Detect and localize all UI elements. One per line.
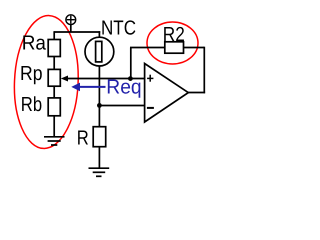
red highlight ellipse around Ra/Rp/Rb divider	[12, 14, 81, 150]
red highlight ellipse around R2	[147, 22, 198, 64]
wire top rail	[54, 31, 100, 33]
wire R2 to output node	[184, 47, 205, 49]
wire Rb to ground	[53, 116, 55, 137]
wire Ra to Rp	[53, 57, 55, 70]
resistor R2	[165, 42, 184, 53]
wire feedback right vertical	[203, 47, 205, 94]
potentiometer Rp	[48, 69, 60, 86]
supply terminal circle-plus	[66, 15, 76, 25]
wire wiper to op-amp non-inverting input	[66, 78, 145, 80]
svg-text:Req: Req	[106, 77, 141, 99]
ground under Rb	[44, 137, 65, 145]
op-amp U1 triangle	[145, 64, 189, 123]
svg-text:Rp: Rp	[20, 63, 43, 85]
op-amp minus input symbol	[147, 107, 154, 109]
blue arrow Req pointing to divider	[71, 83, 105, 92]
wire feedback horizontal to R2	[130, 47, 165, 49]
wire rail to Ra	[53, 31, 55, 39]
svg-text:Rb: Rb	[21, 94, 42, 116]
resistor Ra	[48, 40, 60, 57]
wire op-amp output	[188, 92, 205, 94]
wire NTC to R	[98, 66, 100, 127]
wire rail to NTC	[98, 31, 100, 37]
thermistor NTC	[85, 37, 114, 66]
resistor Rb	[48, 98, 60, 116]
node junction NTC/R/minus-input	[97, 103, 102, 108]
wire supply stub	[70, 25, 72, 32]
wire Rp to Rb	[53, 86, 55, 98]
wire R to ground	[98, 147, 100, 168]
svg-text:NTC: NTC	[101, 18, 136, 40]
op-amp plus input symbol	[147, 75, 153, 82]
svg-text:Ra: Ra	[22, 32, 47, 54]
svg-text:R2: R2	[163, 24, 185, 46]
svg-text:R: R	[77, 128, 89, 150]
resistor R	[93, 127, 106, 147]
wiper arrow of Rp	[61, 76, 68, 82]
wire feedback vertical to R2	[130, 48, 132, 79]
ground under R	[89, 168, 110, 176]
wire node to op-amp inverting input	[99, 105, 144, 107]
node junction wiper/feedback	[128, 76, 133, 81]
